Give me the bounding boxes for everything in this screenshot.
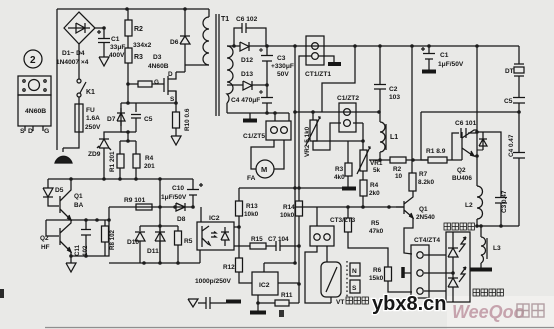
polarity mark C4 [259,90,263,94]
wire left bottom rail y179 [48,178,193,180]
svg-text:D11: D11 [147,248,159,255]
ground Q2a [66,256,76,272]
svg-text:VR2 5.1k0: VR2 5.1k0 [304,126,311,157]
wire main right rail [267,45,519,47]
svg-text:R6: R6 [373,267,382,274]
resistor R2 334x2 [127,9,129,20]
resistor R3b 4k0 [347,141,349,163]
diode D5 [43,179,59,206]
svg-text:R13: R13 [246,203,258,210]
svg-text:R4: R4 [145,155,154,162]
wire pin2 left stub / R14 feed [299,56,311,201]
junction [297,244,301,248]
wire IC2b top feed [264,262,295,264]
zener ZD9 [104,132,128,139]
junction [265,111,269,115]
svg-text:4k0: 4k0 [334,174,345,181]
bottom edge line [45,327,554,329]
junction [183,7,187,11]
svg-text:400V: 400V [109,52,125,59]
junction [237,225,241,229]
package 4N60B drawing [18,76,51,95]
svg-text:C4 0.47: C4 0.47 [508,134,515,157]
wire row y112 [295,111,379,113]
junction [297,186,301,190]
junction [427,44,431,48]
IC2b block [252,272,278,295]
wire pin2 stub to bar [319,56,334,62]
wire rail y188 [239,187,342,189]
svg-text:47k0: 47k0 [369,228,384,235]
junction [293,110,297,114]
LED box [446,232,470,302]
bridge rectifier D1~D4 [64,12,95,44]
text reed-tube label [346,297,368,304]
junction [102,26,106,30]
junction [517,110,521,114]
terminal bar [243,119,257,123]
svg-text:R5: R5 [371,220,380,227]
junction [265,83,269,87]
resistor R15 [250,243,266,249]
resistor R1b 8.9 [428,157,447,163]
wire rail y226 [140,225,178,227]
capacitor C1 33uF/400V [95,28,110,57]
svg-text:C3: C3 [277,55,286,62]
svg-text:S: S [352,285,357,292]
edge specks [0,289,4,298]
svg-text:2N540: 2N540 [416,214,435,221]
transformer T1 core [216,14,219,116]
diode D12 [227,42,267,51]
svg-text:C6 101: C6 101 [455,120,477,127]
junction [451,271,455,275]
pseudo CJK glyphs [346,223,503,304]
connector CT1/ZT1 [306,36,324,65]
resistor R4b 2k0 [362,171,364,180]
svg-text:D12: D12 [241,57,253,64]
svg-text:G: G [154,79,159,86]
svg-text:10: 10 [395,173,403,180]
capacitor C6 102 loop [234,23,266,46]
junction [173,205,177,209]
svg-text:C1: C1 [440,52,449,59]
svg-text:ZD9: ZD9 [88,151,101,158]
svg-text:G: G [44,128,49,135]
svg-text:BA: BA [74,202,84,209]
junction [293,186,297,190]
junction [361,205,365,209]
svg-text:L1: L1 [390,134,398,141]
svg-text:IC2: IC2 [259,282,270,289]
svg-text:103: 103 [389,94,400,101]
AC plug P1 [55,156,72,163]
resistor R14 10k0 [296,201,303,216]
svg-text:R15: R15 [251,236,263,243]
optocoupler IC2 [197,222,234,250]
svg-text:33μF: 33μF [110,44,125,51]
svg-text:C4 470μF: C4 470μF [231,97,260,104]
junction [126,82,130,86]
svg-text:C2: C2 [389,86,398,93]
svg-text:C6 102: C6 102 [236,16,258,23]
diode D10 [135,226,145,263]
svg-text:VT: VT [336,299,344,306]
text green heating label [473,289,503,296]
junction [311,110,315,114]
diode D13 [243,81,267,90]
wire bus x160 [159,179,161,264]
MOSFET D3 4N60B [162,78,164,92]
junction [411,158,415,162]
svg-text:8.2k0: 8.2k0 [418,179,434,186]
svg-text:FA: FA [247,175,256,182]
transistor Q2b BU406 [461,132,463,160]
wire row y112 right [421,112,519,160]
diode D11 [155,226,165,263]
capacitor C2 103 [374,46,386,112]
resistor R11 [258,302,275,304]
junction [158,261,162,265]
svg-text:201: 201 [144,163,155,170]
svg-text:C1/ZT2: C1/ZT2 [337,95,359,102]
svg-text:4N60B: 4N60B [25,108,46,115]
wire secondary gnd row [227,113,289,119]
junction [102,177,106,181]
resistor R12 [239,227,252,283]
diode D6 [180,9,190,65]
svg-text:L3: L3 [493,245,501,252]
svg-text:BU406: BU406 [452,175,472,182]
junction [377,110,381,114]
wire left AC drop [56,9,58,150]
wire VR1 feed [313,123,363,150]
junction [475,224,479,228]
junction [499,224,503,228]
svg-text:R1 201: R1 201 [109,151,116,172]
svg-text:CT3/ZT3: CT3/ZT3 [330,217,356,224]
junction [158,177,162,181]
reed switch VT [321,262,341,297]
potentiometer VR2 5.1k0 [312,112,314,120]
svg-text:4N60B: 4N60B [148,63,169,70]
svg-text:R11: R11 [281,292,293,299]
junction [69,177,73,181]
junction [475,130,479,134]
junction [387,205,391,209]
junction [256,301,260,305]
capacitor C7 104 [276,241,299,251]
capacitor C10 1uF/50V [187,179,199,207]
svg-text:S: S [170,96,175,103]
svg-text:VR1: VR1 [370,160,383,167]
svg-text:Q1: Q1 [74,193,83,200]
svg-text:R5: R5 [184,238,193,245]
svg-text:N: N [352,268,357,275]
svg-text:R9 101: R9 101 [124,197,146,204]
resistor R2b 10 [390,157,406,163]
inductor L2 [476,156,478,186]
svg-text:WeeQoo: WeeQoo [452,302,525,322]
wire mid vertical A [294,46,296,263]
svg-text:C7 104: C7 104 [268,236,289,243]
junction [84,218,88,222]
junction [361,139,365,143]
wire VR2 bottom loop [313,123,341,150]
junction [479,224,483,228]
capacitor C5b [513,98,525,113]
diode DQ2 [479,132,487,150]
svg-text:102: 102 [82,245,89,256]
junction [475,44,479,48]
capacitor C3 330uF/50V [261,46,273,85]
diode D8 [176,203,185,211]
junction [378,158,382,162]
connector CT4/ZT4 [411,245,429,298]
svg-text:R3: R3 [134,54,143,61]
svg-text:L2: L2 [465,202,473,209]
svg-text:M: M [261,165,267,174]
junction [232,44,236,48]
figure circle 2 [24,50,42,68]
junction [84,254,88,258]
svg-text:CT4/ZT4: CT4/ZT4 [414,237,440,244]
electrode bar [401,267,405,278]
watermark weeqoo box [447,296,554,329]
svg-text:HF: HF [41,244,50,251]
svg-text:C5: C5 [504,98,513,105]
wire bottom right row [477,225,519,227]
potentiometer VR1 5k [360,150,367,171]
svg-text:Q2: Q2 [40,235,49,242]
magnet S box [350,280,360,293]
motor FA [251,140,284,169]
wire row y160 [369,159,428,161]
junction [69,254,73,258]
svg-text:250V: 250V [85,124,101,131]
junction [126,130,130,134]
capacitor C3b 0.47 [477,132,507,226]
text red water-short label [444,223,474,230]
junction [265,44,269,48]
LED green [448,273,458,302]
junction [142,261,146,265]
svg-text:R1 8.9: R1 8.9 [426,148,446,155]
LED red [448,232,458,273]
resistor R13 10k0 [238,188,240,227]
wire rail y263 [109,262,200,264]
connector CT/ZT5 [266,121,291,140]
junction [126,101,130,105]
svg-text:334x2: 334x2 [133,42,152,49]
resistor R5b 47k0 [348,207,388,267]
svg-text:15k0: 15k0 [369,275,384,282]
wire secondary tap [227,84,243,86]
capacitor C4 470uF [261,85,273,113]
svg-text:Q1: Q1 [419,206,428,213]
resistor R3 [127,36,129,48]
transistor Q2a HF [46,220,59,236]
capacitor C11 102 [81,220,91,256]
inductor L3 [480,226,482,237]
inductor L1 [379,112,381,122]
svg-text:R2: R2 [134,26,143,33]
junction [475,154,479,158]
svg-text:D6: D6 [170,39,179,46]
svg-text:C1/ZT5: C1/ZT5 [243,133,265,140]
transformer T1 secondary [227,46,233,103]
magnet N box [350,263,360,276]
junction [95,218,99,222]
svg-text:Q2: Q2 [457,167,466,174]
svg-text:D: D [168,71,173,78]
svg-text:S: S [20,128,25,135]
junction [353,44,357,48]
svg-text:D5: D5 [55,187,64,194]
svg-text:D: D [28,128,33,135]
IC2b ground [257,295,259,311]
svg-text:50V: 50V [277,71,289,78]
connector CT3/ZT3 [310,226,334,246]
svg-text:CT1/ZT1: CT1/ZT1 [305,71,331,78]
svg-text:R3: R3 [335,166,344,173]
wire col x412 [411,46,413,173]
junction [118,177,122,181]
svg-text:D3: D3 [153,54,162,61]
transistor Q1a BA [59,196,61,213]
junction [191,205,195,209]
junction [174,101,178,105]
svg-text:C11: C11 [74,244,81,256]
wire row y220 [46,219,109,221]
capacitor C6b 101 [452,128,477,160]
svg-text:D1~ D4: D1~ D4 [62,50,85,57]
svg-text:1.6A: 1.6A [86,115,100,122]
resistor R9 101 [136,204,152,210]
svg-text:2: 2 [30,55,36,66]
resistor R6 15k0 [385,267,392,281]
junction [126,139,130,143]
ground bar L3 [470,268,492,272]
wire rail to CTZT2 [322,46,355,112]
svg-text:D13: D13 [241,71,253,78]
wires CT4 pins to LEDs [424,255,453,291]
svg-text:R2: R2 [393,166,402,173]
junction [293,44,297,48]
wire Q2 collector col [476,46,478,132]
junction [158,224,162,228]
svg-text:C3 0.47: C3 0.47 [501,190,508,213]
junction [134,177,138,181]
junction [410,44,414,48]
svg-text:R10 0.6: R10 0.6 [184,108,191,131]
junction [297,282,301,286]
capacitor C4b 0.47 [513,112,525,226]
crystal DT [514,46,524,64]
wire drain link [176,65,185,72]
gate resistor [128,83,138,85]
svg-text:1μF/50V: 1μF/50V [438,61,464,68]
transistor Q1b 2N540 [396,201,404,214]
junction [107,218,111,222]
resistor R10 0.6 [175,104,177,112]
resistor R8 102 [104,220,106,256]
svg-text:R8 102: R8 102 [109,229,116,250]
svg-text:10k0: 10k0 [280,212,295,219]
svg-text:1μF/50V: 1μF/50V [161,194,187,201]
capacitor 1000p/250V row [198,297,226,309]
svg-text:2k0: 2k0 [369,190,380,197]
diode D7 / capacitor C5a parallel loop [121,103,136,132]
svg-text:T1: T1 [221,16,229,23]
ground bar R3b [342,187,356,191]
wire row y256 [71,207,109,256]
svg-text:IC2: IC2 [209,215,220,222]
junction [293,261,297,265]
svg-text:1000p/250V: 1000p/250V [195,278,232,285]
wire CT3 pins down [305,246,331,303]
resistor R5a [177,226,179,263]
junction [346,205,350,209]
transformer T1 primary [208,9,210,17]
svg-text:D8: D8 [177,216,186,223]
svg-text:R7: R7 [419,171,428,178]
junction [176,261,180,265]
svg-text:FU: FU [86,107,95,114]
svg-text:ybx8.cn: ybx8.cn [372,293,446,315]
resistor R7 8.2k0 [409,173,416,191]
svg-text:5k: 5k [373,167,381,174]
svg-text:C5: C5 [144,116,153,123]
wire top DC rail [57,8,209,10]
svg-text:1N4007 ×4: 1N4007 ×4 [56,59,89,66]
svg-text:C10: C10 [172,185,184,192]
svg-text:+330μF: +330μF [271,63,294,70]
fuse FU 1.6A/250V [75,104,83,132]
junction [125,7,129,11]
magnet dashed line [346,261,348,299]
junction [273,111,277,115]
svg-text:D7: D7 [107,116,116,123]
svg-text:D10: D10 [127,239,139,246]
polarity mark C3 [259,48,263,52]
wire source row [136,91,176,103]
wire row y207 [109,206,193,208]
connector CT1/ZT2 [339,103,356,132]
svg-text:DT: DT [505,68,514,75]
svg-text:C1: C1 [111,36,120,43]
svg-text:R14: R14 [283,204,295,211]
svg-text:R12: R12 [223,264,235,271]
junction [158,205,162,209]
svg-text:K1: K1 [86,89,95,96]
resistor R1a 201 / R4a 201 loop [120,132,136,179]
capacitor C1b 1uF/50V [423,46,435,70]
switch K1 [77,79,81,83]
svg-text:R4: R4 [370,182,379,189]
junction [378,44,382,48]
svg-text:10k0: 10k0 [244,211,259,218]
